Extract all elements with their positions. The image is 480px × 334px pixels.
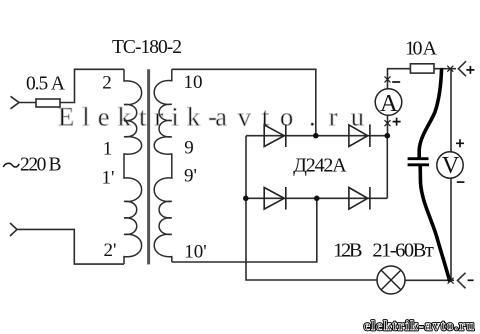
transformer T1 secondary winding — [154, 69, 172, 262]
wire lamp right to terminal minus — [405, 279, 454, 281]
svg-text:10': 10' — [184, 242, 206, 263]
terminal arrow X2 (220V bottom) — [10, 223, 17, 236]
battery GB cable upper squiggle — [419, 70, 441, 157]
svg-text:A: A — [380, 90, 398, 117]
transformer T1 primary winding — [124, 69, 142, 264]
wire bridge bottom row — [246, 197, 387, 199]
ammeter PA1 — [375, 89, 402, 117]
svg-text:10 А: 10 А — [405, 38, 438, 60]
battery GB plate bottom — [408, 163, 430, 166]
svg-text:10: 10 — [184, 72, 203, 93]
svg-text:9: 9 — [184, 137, 194, 158]
node bridge AC bottom junction — [314, 196, 320, 202]
wire secondary 10 to bridge AC top — [172, 69, 316, 135]
svg-text:0.5 А: 0.5 А — [26, 73, 65, 94]
wire input top: arrow to fuse — [10, 69, 124, 264]
transformer T1 core — [147, 69, 150, 264]
wire ammeter top to fuse F2 — [388, 69, 411, 89]
svg-text:220 В: 220 В — [20, 155, 62, 176]
wire fuse F2 to terminal plus — [434, 68, 456, 70]
node bridge minus junction — [243, 196, 249, 202]
junction x mark terminal plus — [447, 66, 453, 72]
diode VD4 — [349, 187, 370, 210]
svg-text:2': 2' — [104, 240, 117, 261]
svg-text:.ru: .ru — [309, 102, 364, 132]
diode VD1 — [264, 124, 286, 147]
battery GB cable lower squiggle — [420, 166, 449, 281]
svg-text:Elektrik-: Elektrik- — [58, 102, 217, 132]
wire fuse F1 to primary top — [60, 69, 124, 102]
svg-text:Д242А: Д242А — [293, 154, 347, 176]
wire arrow to fuse F1 — [19, 102, 36, 104]
wire voltmeter minus lead — [450, 178, 452, 280]
svg-text:avto: avto — [215, 102, 293, 132]
svg-text:21-60Вт: 21-60Вт — [372, 240, 433, 262]
svg-text:1': 1' — [102, 167, 115, 188]
wire secondary 10' to bridge AC bottom — [172, 198, 317, 262]
node bridge plus junction — [385, 133, 391, 139]
wire voltmeter plus lead — [450, 69, 452, 152]
watermark Elektrik-avto.ru — [58, 102, 364, 132]
diode VD2 — [349, 124, 370, 147]
wire bridge top row — [246, 135, 387, 137]
lamp EL1 — [377, 266, 405, 294]
svg-text:2: 2 — [102, 72, 112, 93]
junction x mark terminal minus — [448, 278, 454, 284]
node bridge AC top junction — [313, 133, 319, 139]
plus label voltmeter top — [456, 139, 464, 147]
junction x mark ammeter minus — [385, 76, 391, 82]
svg-text:12В: 12В — [333, 240, 363, 262]
wire arrow X2 to primary bottom — [17, 229, 124, 264]
svg-text:1: 1 — [103, 139, 113, 160]
minus label voltmeter bottom — [457, 181, 465, 183]
wire bridge plus to ammeter bottom — [387, 115, 389, 135]
voltmeter PV1 — [437, 152, 463, 179]
site watermark elektrik-avto.ru — [364, 318, 474, 333]
minus label output minus terminal — [468, 279, 474, 281]
svg-text:9': 9' — [184, 166, 197, 187]
minus label ammeter top — [392, 81, 400, 83]
label ~220 V — [3, 155, 61, 176]
diode VD3 — [264, 187, 286, 210]
terminal arrow X4 (- output) — [458, 273, 466, 289]
terminal arrow X3 (+ output) — [458, 61, 466, 76]
wire bridge left column to lamp — [246, 136, 377, 280]
terminal arrow X1 (220V top) — [11, 96, 20, 109]
svg-text:ТС-180-2: ТС-180-2 — [112, 37, 182, 58]
fuse F1 0.5A — [36, 99, 60, 107]
plus label ammeter bottom — [393, 118, 401, 126]
svg-text:elektrik-avto.ru: elektrik-avto.ru — [364, 318, 474, 333]
svg-text:V: V — [442, 153, 460, 179]
wire bridge right column — [386, 136, 388, 199]
plus label output plus terminal — [466, 66, 474, 74]
battery GB plate top — [408, 157, 429, 160]
junction x mark ammeter plus — [385, 120, 391, 126]
fuse F2 10A — [410, 64, 434, 73]
